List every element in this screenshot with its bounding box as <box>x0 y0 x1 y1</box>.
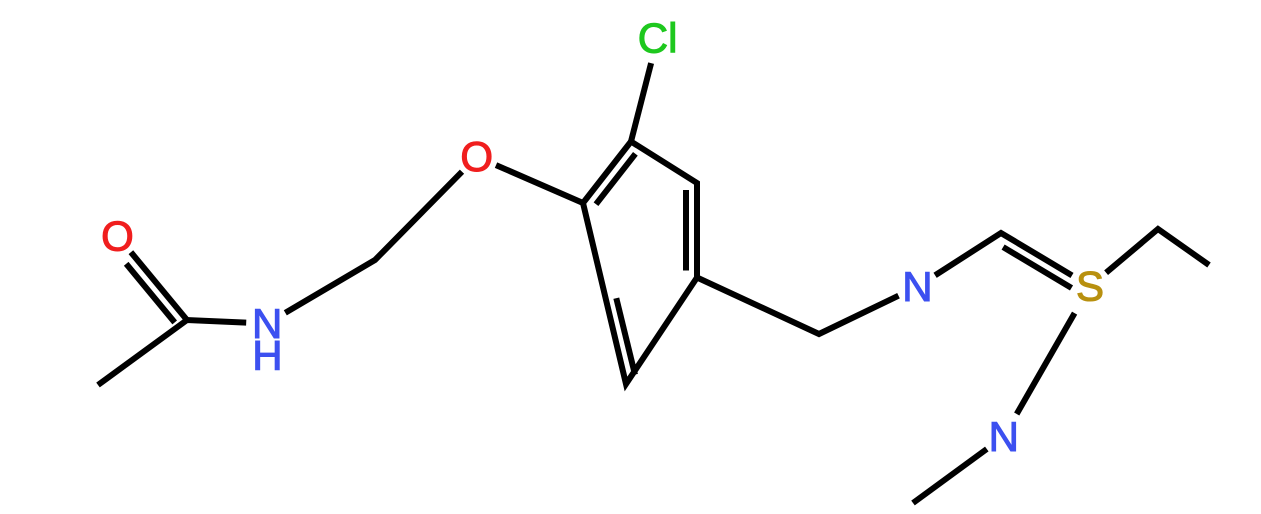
svg-text:H: H <box>252 332 282 379</box>
ether O to aryl C1 bond <box>496 165 583 203</box>
N3-CH3 methyl bond <box>913 449 987 503</box>
svg-text:O: O <box>101 213 134 260</box>
N1-C2 bond and C2-S bond <box>935 233 1072 275</box>
svg-text:N: N <box>902 263 932 310</box>
aromatic inner line on ring bond E-F <box>616 298 635 374</box>
carbonyl C=O inner double-bond line <box>126 264 175 323</box>
svg-text:S: S <box>1076 263 1104 310</box>
aromatic inner line on ring bond C-D <box>683 190 689 271</box>
aromatic inner line on ring bond A-B <box>596 154 635 204</box>
C-Cl bond to chlorine <box>631 63 651 141</box>
benzylic CH2 chain ring-D to CH2 to N1 <box>697 278 899 335</box>
acetamide: CH3-C(=O)-N chain <box>98 320 246 385</box>
C2=S inner double-bond line <box>1003 247 1071 288</box>
carbonyl C=O bond main line <box>131 252 187 320</box>
S-CH2-CH3 ethyl chain <box>1106 229 1209 273</box>
amide N to CH2 to ether O chain <box>285 172 462 313</box>
svg-text:N: N <box>989 413 1019 460</box>
benzene ring outline A-B-C-D-E closed <box>583 142 697 385</box>
S-N3 diagonal bond <box>1017 313 1075 414</box>
svg-text:Cl: Cl <box>638 14 678 61</box>
svg-text:O: O <box>460 133 493 180</box>
